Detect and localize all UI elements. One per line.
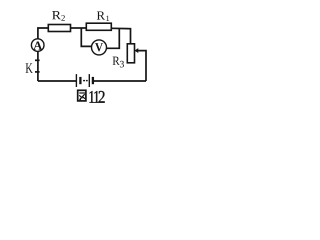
voltmeter letter V (95, 43, 103, 51)
battery middle dash 1 (83, 80, 85, 82)
caption digit 2 (99, 91, 105, 103)
ammeter letter A (33, 41, 42, 49)
wire left rail up through switch to ammeter (37, 51, 39, 81)
caption digit 1 (90, 91, 95, 103)
caption hanzi TU (figure) box glyph (78, 90, 86, 101)
ammeter circle (31, 39, 44, 52)
battery cell1 long plate (75, 74, 77, 87)
battery middle dash 2 (86, 80, 88, 82)
battery cell2 short plate (92, 77, 94, 84)
caption digit 1 (94, 91, 99, 103)
wire junction at node down to voltmeter left (81, 28, 92, 46)
label R1 (97, 11, 105, 19)
wire ammeter top up and over to R2 (38, 28, 48, 39)
label R3 subscript 3 (120, 61, 124, 68)
label R2 subscript 2 (61, 15, 64, 21)
voltmeter circle (92, 40, 107, 55)
rheostat slider arrow (135, 49, 138, 53)
battery cell2 long plate (88, 74, 90, 87)
rheostat R3 body (127, 44, 134, 63)
label R2 (52, 11, 61, 19)
battery cell1 short plate (79, 77, 81, 84)
label R3 (113, 57, 120, 65)
wire rheostat slider to right rail down (137, 51, 146, 81)
label K switch (26, 63, 33, 72)
wire R2 right to R1 left (71, 27, 87, 29)
wire battery to bottom left corner (38, 80, 77, 82)
label R1 subscript 1 (106, 16, 109, 21)
wire R1 right to rheostat feed corner (111, 28, 130, 44)
resistor R2 (48, 25, 70, 32)
resistor R1 (86, 23, 111, 30)
switch K lower contact tick (35, 71, 40, 73)
wire bottom right rail to battery (94, 80, 146, 82)
wire voltmeter right up to top wire (tee) (106, 29, 119, 49)
switch K upper contact tick (35, 59, 40, 61)
